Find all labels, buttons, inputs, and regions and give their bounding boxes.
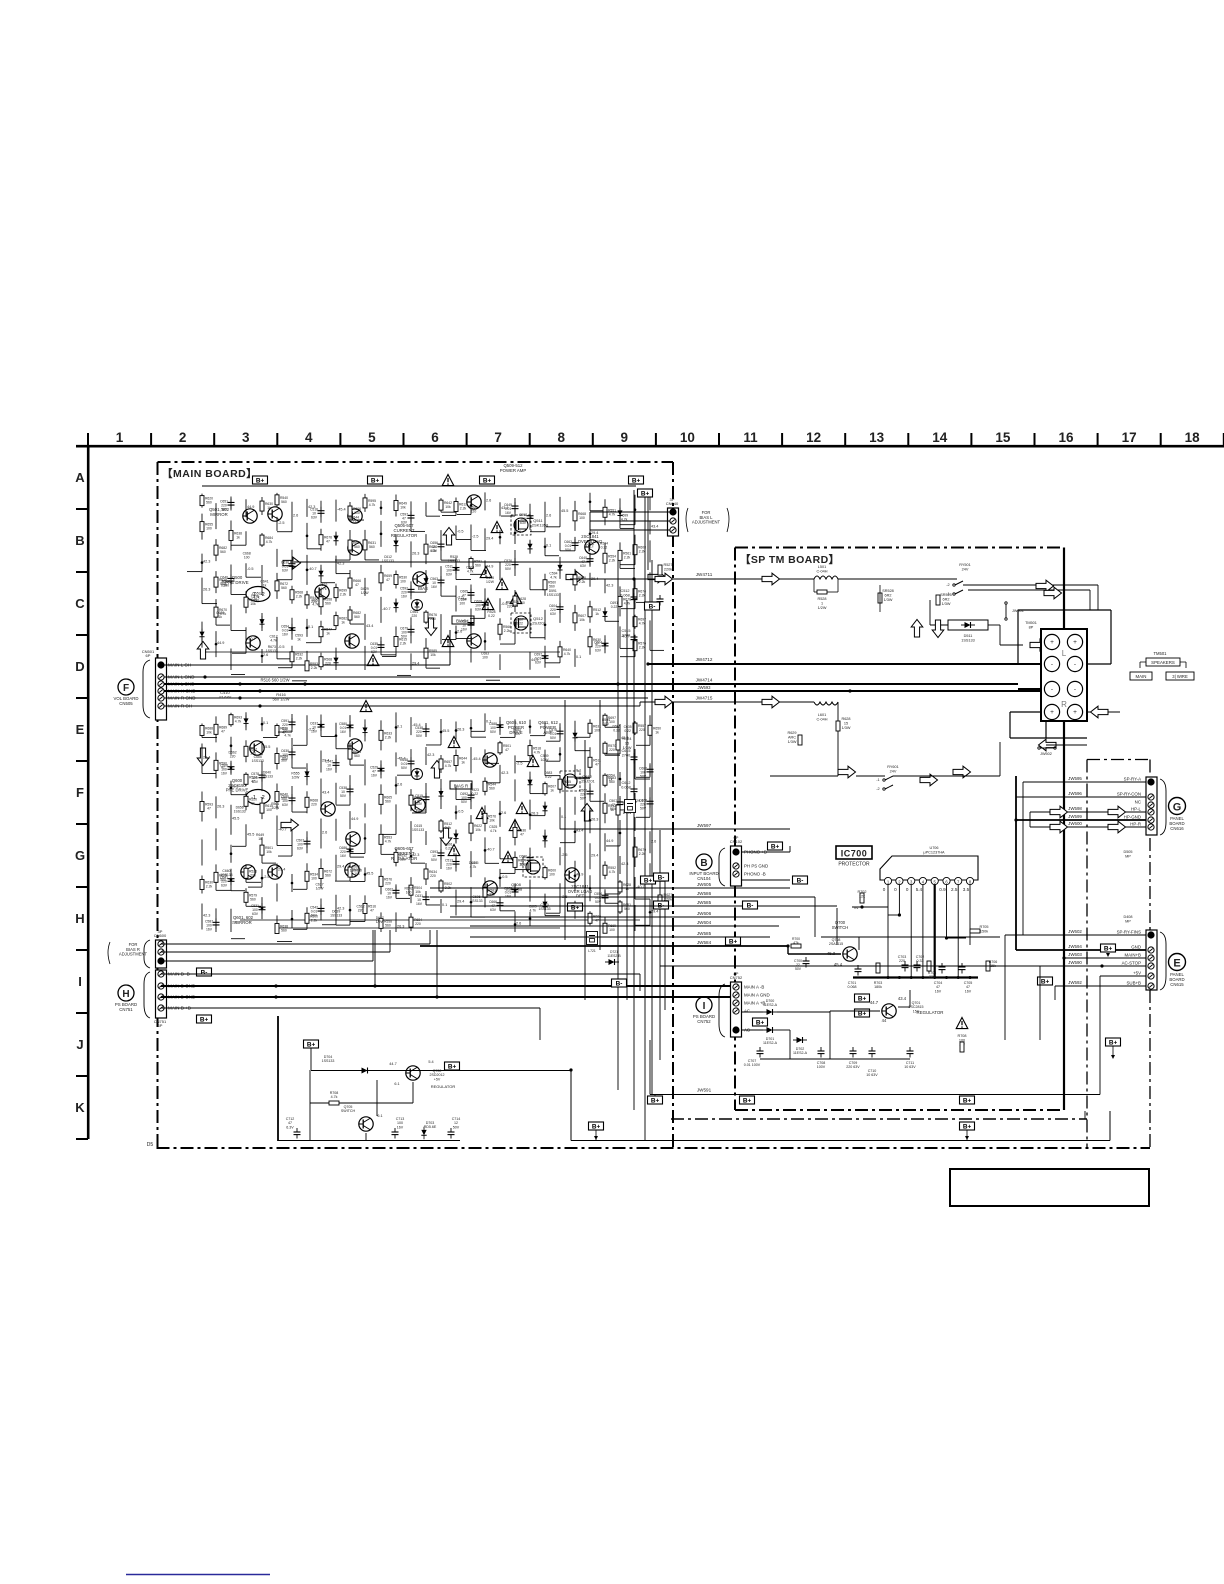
resistor R619 — [305, 913, 309, 923]
resistor R537 — [290, 652, 294, 662]
wire stub — [277, 941, 292, 943]
svg-text:B: B — [700, 858, 707, 869]
wire segment — [634, 615, 636, 629]
svg-text:63V: 63V — [475, 607, 482, 611]
B+ marker upper rail — [253, 476, 268, 485]
wire segment — [484, 528, 486, 550]
svg-text:0: 0 — [883, 887, 886, 892]
capacitor C547 — [347, 721, 354, 732]
wire relay to speaker — [963, 584, 1098, 586]
wire segment — [604, 793, 606, 823]
svg-text:1k: 1k — [297, 637, 301, 641]
wire segment — [514, 719, 516, 737]
connector CN640 body — [668, 508, 679, 536]
wire segment — [395, 776, 397, 794]
wire segment — [559, 747, 561, 761]
svg-text:16V: 16V — [340, 730, 347, 734]
capacitor C708 — [818, 1047, 825, 1058]
svg-text:560 1/2W: 560 1/2W — [272, 697, 289, 702]
warning triangle — [442, 636, 454, 647]
svg-text:26.3: 26.3 — [217, 804, 224, 808]
svg-text:1SS133: 1SS133 — [470, 899, 482, 903]
B+ marker E mid — [1106, 1038, 1121, 1047]
transistor Q603 — [411, 798, 425, 812]
wire segment — [544, 894, 546, 916]
svg-text:220: 220 — [929, 975, 935, 979]
svg-text:C: C — [75, 596, 85, 611]
svg-text:JW591: JW591 — [697, 1088, 712, 1093]
svg-text:0.1: 0.1 — [308, 625, 313, 629]
svg-text:2.6: 2.6 — [516, 921, 521, 925]
wire stub — [545, 915, 560, 917]
svg-text:220: 220 — [899, 959, 905, 963]
wire IC pin drop — [922, 885, 924, 978]
svg-text:47k: 47k — [793, 941, 799, 945]
wire segment — [559, 593, 561, 623]
signal arrow speaker bottom — [1039, 739, 1057, 751]
connector CN600 body — [156, 940, 167, 968]
wire segment — [425, 723, 427, 737]
capacitor C636 — [542, 652, 549, 663]
wire segment — [425, 610, 427, 624]
wire JW590 long — [660, 965, 1040, 967]
wire segment — [215, 716, 217, 742]
wire segment — [499, 897, 501, 911]
svg-text:14: 14 — [932, 430, 948, 445]
transistor Q5A — [315, 585, 329, 599]
wire stub — [605, 893, 620, 895]
grid tick column 18 — [1223, 433, 1224, 446]
svg-text:G: G — [1173, 802, 1182, 814]
connector CN752 pin MAIN A GND — [733, 992, 739, 998]
wire stub — [336, 573, 350, 575]
wire segment — [619, 542, 621, 568]
svg-text:16V: 16V — [461, 628, 468, 632]
resistor R691 — [483, 887, 487, 897]
wire stub — [293, 744, 307, 746]
connector CN102 bracket — [719, 848, 725, 886]
resistor R644 — [618, 902, 622, 912]
svg-text:45.5: 45.5 — [263, 745, 270, 749]
capacitor C632 — [557, 603, 564, 614]
svg-text:63V: 63V — [446, 573, 453, 577]
resistor R565 — [558, 779, 562, 789]
wire segment — [320, 750, 322, 772]
speaker terminal 4 + — [1067, 704, 1082, 719]
wire segment — [349, 743, 351, 765]
capacitor C516 — [318, 507, 325, 517]
wire segment — [514, 819, 516, 845]
resistor R628 — [348, 578, 352, 588]
wire stub — [231, 629, 246, 631]
wire segment — [470, 557, 472, 571]
capacitor C694 — [438, 576, 445, 587]
resistor R563 — [454, 755, 458, 765]
wire segment — [529, 740, 531, 762]
diode D525 — [602, 608, 607, 620]
wire segment — [529, 720, 531, 734]
svg-text:10k: 10k — [206, 730, 212, 734]
resistor R607 — [305, 595, 309, 605]
B+ marker CN752 — [753, 1018, 768, 1027]
wire vertical bundle — [584, 740, 586, 1000]
connector CN616 body — [1146, 777, 1157, 835]
wire stub — [322, 924, 336, 926]
wire stub — [471, 602, 486, 604]
capacitor C613 — [587, 787, 594, 798]
svg-text:1SS133: 1SS133 — [547, 593, 559, 597]
resistor R665 — [588, 757, 592, 767]
svg-text:2.6: 2.6 — [322, 830, 327, 834]
wire JW584 drop to Q700 base — [787, 946, 789, 954]
wire stub — [382, 833, 396, 835]
resistor R579 — [603, 923, 607, 933]
wire +5V rail — [311, 1070, 571, 1072]
wire stub — [545, 662, 560, 664]
resistor R518 — [319, 657, 323, 667]
capacitor C561 — [347, 845, 354, 856]
wire IC pin drop — [957, 885, 959, 978]
wire MAIN B -B — [161, 973, 640, 975]
svg-text:43.4: 43.4 — [898, 996, 907, 1001]
capacitor C614 — [228, 875, 235, 886]
svg-text:10k: 10k — [266, 850, 272, 854]
wire segment — [619, 724, 621, 754]
svg-text:100: 100 — [609, 928, 615, 932]
connector CN752 pin AC — [733, 1027, 739, 1033]
wire segment — [455, 586, 457, 612]
wire segment — [499, 741, 501, 755]
svg-text:1SS133: 1SS133 — [266, 649, 278, 653]
wire stub — [231, 544, 246, 546]
svg-text:560: 560 — [489, 786, 495, 790]
wire segment — [484, 632, 486, 650]
wire stub — [501, 515, 515, 517]
wire segment — [245, 627, 247, 653]
wire stub — [442, 515, 456, 517]
svg-text:45.5: 45.5 — [561, 509, 568, 513]
wire stub — [336, 804, 350, 806]
wire rail drop — [647, 490, 649, 570]
wire row C long — [290, 561, 590, 563]
JW501 link — [1005, 604, 1007, 618]
svg-text:45.5: 45.5 — [232, 817, 239, 821]
svg-text:100: 100 — [206, 527, 212, 531]
wire segment — [470, 719, 472, 737]
wire reg vertical 2 — [829, 1011, 831, 1059]
svg-text:50V: 50V — [550, 736, 557, 740]
wire JW585 — [470, 936, 770, 938]
resistor R571 — [379, 918, 383, 928]
diode D616 — [542, 833, 547, 845]
wire segment — [619, 900, 621, 914]
wire segment — [395, 534, 397, 552]
svg-text:50V: 50V — [401, 766, 408, 770]
resistor R615 — [200, 496, 204, 506]
transistor Q607 — [348, 739, 362, 753]
svg-text:560: 560 — [220, 550, 226, 554]
B+ marker mid column — [638, 489, 653, 498]
capacitor C650 — [512, 885, 519, 896]
wire segment — [604, 607, 606, 621]
wire segment — [634, 877, 636, 899]
connector CN615 bracket — [1160, 932, 1166, 990]
speaker terminal 1 + — [1044, 634, 1059, 649]
svg-text:JW596: JW596 — [1068, 791, 1082, 796]
wire stub — [650, 649, 664, 651]
svg-text:4.7k: 4.7k — [270, 639, 277, 643]
svg-text:560: 560 — [281, 929, 287, 933]
svg-text:8P: 8P — [1029, 625, 1034, 629]
wire segment — [215, 631, 217, 657]
wire reg bottom — [760, 1058, 910, 1060]
svg-text:JW605: JW605 — [697, 882, 712, 887]
svg-text:D408: D408 — [1123, 915, 1132, 919]
wire stub — [232, 652, 246, 654]
wire segment — [215, 571, 217, 593]
grid tick row 2 — [76, 571, 88, 573]
wire segment — [245, 712, 247, 730]
svg-text:10k: 10k — [354, 872, 360, 876]
wire stub — [620, 647, 635, 649]
B+ marker near CN751 — [197, 1015, 212, 1024]
wire stub — [278, 855, 292, 857]
svg-text:0.22: 0.22 — [472, 792, 479, 796]
wire segment — [306, 715, 308, 745]
wire segment — [306, 763, 308, 785]
grid tick column 3 — [276, 433, 278, 446]
capacitor C566 — [438, 540, 445, 551]
signal arrow SP mid a — [838, 766, 856, 778]
svg-text:1k: 1k — [258, 837, 262, 841]
B- marker lower mid — [612, 979, 627, 988]
capacitor C668 — [228, 574, 235, 585]
svg-text:-0.5: -0.5 — [232, 785, 239, 789]
connector CN616 pin NC — [1148, 802, 1154, 808]
B- marker near CN751 — [197, 968, 212, 977]
resistor R627 — [658, 895, 662, 905]
IC U706 pin 2 — [896, 877, 903, 884]
svg-text:R524: R524 — [622, 737, 631, 741]
svg-text:μPC1237HA: μPC1237HA — [923, 850, 945, 854]
wire segment — [455, 853, 457, 871]
svg-text:16V: 16V — [431, 585, 438, 589]
svg-text:2.2k: 2.2k — [400, 641, 407, 645]
svg-text:45.5: 45.5 — [247, 832, 254, 836]
svg-text:REGULATOR: REGULATOR — [391, 533, 417, 538]
wire segment — [649, 520, 651, 534]
svg-text:SR528: SR528 — [882, 589, 894, 593]
wire segment — [574, 537, 576, 551]
wire stub — [382, 655, 396, 657]
wire segment — [245, 740, 247, 762]
wire segment — [514, 622, 516, 644]
connector CN501 pin MAIN R CH — [158, 703, 164, 709]
wire stub — [231, 593, 246, 595]
wire speaker row4 right — [1087, 711, 1120, 713]
svg-text:2.2k: 2.2k — [639, 594, 646, 598]
resistor R589 — [603, 743, 607, 753]
wire segment — [276, 493, 278, 507]
wire MAIN L GND bus — [164, 676, 560, 678]
inductor L501 — [814, 576, 838, 579]
grid tick column 15 — [1034, 433, 1036, 446]
svg-text:3| WIRE: 3| WIRE — [1172, 674, 1188, 679]
wire segment — [291, 714, 293, 732]
svg-text:16V: 16V — [505, 511, 512, 515]
svg-text:4.7k: 4.7k — [284, 734, 291, 738]
wire segment — [470, 783, 472, 809]
svg-text:SP-RY-A: SP-RY-A — [1124, 777, 1141, 782]
wire +5V — [1100, 975, 1146, 977]
svg-text:-2.5: -2.5 — [472, 535, 479, 539]
wire SP right vertical 2 — [836, 908, 838, 945]
wire segment — [364, 895, 366, 921]
svg-text:1k: 1k — [655, 730, 659, 734]
wire HP-GND — [1016, 819, 1146, 821]
wire rail to corner — [570, 1071, 572, 1141]
svg-text:2.2k: 2.2k — [624, 555, 631, 559]
wire stub — [500, 643, 515, 645]
wire stub — [277, 845, 292, 847]
signal arrow JW4711 a — [655, 573, 673, 585]
capacitor C612 — [631, 785, 638, 796]
wire MAIN R CH rise — [639, 702, 641, 706]
signal arrow JW4715 b — [762, 696, 780, 708]
wire segment — [215, 599, 217, 625]
svg-text:63V: 63V — [297, 846, 304, 850]
svg-text:10k: 10k — [430, 653, 436, 657]
wire stub — [456, 579, 471, 581]
wire segment — [499, 869, 501, 887]
wire segment — [425, 747, 427, 765]
wire segment — [499, 502, 501, 516]
wire AC-STOP — [1040, 965, 1146, 967]
wire speaker row3 — [1018, 688, 1041, 690]
transistor Q705 — [359, 1117, 373, 1131]
wire stub — [321, 629, 336, 631]
wire segment — [529, 772, 531, 794]
svg-text:U706: U706 — [929, 846, 938, 850]
wire segment — [514, 779, 516, 801]
capacitor C516 — [527, 854, 534, 865]
svg-text:17: 17 — [1122, 430, 1137, 445]
svg-text:JW593: JW593 — [697, 685, 711, 690]
wire stub — [248, 886, 262, 888]
svg-text:8P: 8P — [734, 971, 739, 976]
resistor R561 — [244, 868, 248, 878]
svg-text:2.6: 2.6 — [501, 811, 506, 815]
connector CN616 pin SP-RY-A — [1148, 779, 1154, 785]
svg-text:G: G — [75, 848, 85, 863]
wire segment — [364, 614, 366, 640]
MAIN box label — [1130, 672, 1152, 680]
wire segment — [395, 804, 397, 834]
resistor R539 — [275, 924, 279, 934]
wire segment — [245, 531, 247, 545]
svg-text:1k: 1k — [236, 535, 240, 539]
wire stub — [500, 858, 515, 860]
svg-text:63V: 63V — [401, 520, 408, 524]
junction HP — [1014, 818, 1017, 821]
svg-text:PROTECTOR: PROTECTOR — [838, 862, 870, 868]
transistor Q507 — [246, 636, 260, 650]
capacitor C714 — [448, 1128, 455, 1139]
wire Q701 collector — [898, 1006, 910, 1008]
wire stub — [457, 514, 471, 516]
B+ marker mid 2 — [641, 876, 656, 885]
wire segment — [349, 775, 351, 805]
wire segment — [276, 864, 278, 878]
svg-text:R705: R705 — [979, 925, 988, 929]
FET Q612 — [560, 771, 580, 791]
wire segment — [215, 539, 217, 561]
transistor Q602 — [268, 865, 282, 879]
connector circle F — [118, 679, 134, 695]
svg-text:1/2W: 1/2W — [361, 591, 370, 595]
transistor Q504 — [348, 541, 362, 555]
B- marker phono — [793, 876, 808, 885]
wire segment — [349, 606, 351, 624]
wire MAIN L GND bus 2 — [164, 683, 1018, 685]
capacitor C595 — [572, 539, 579, 550]
svg-text:16V: 16V — [505, 894, 512, 898]
wire segment — [410, 501, 412, 531]
wire segment — [470, 609, 472, 639]
wire stub — [292, 811, 307, 813]
wire segment — [484, 713, 486, 731]
svg-text:BIAS: BIAS — [416, 808, 426, 813]
resistor R629 — [798, 735, 802, 745]
svg-text:-40.7: -40.7 — [278, 828, 287, 832]
diode D702 — [793, 1037, 807, 1043]
svg-text:42.3: 42.3 — [203, 560, 210, 564]
svg-text:AC-STOP: AC-STOP — [1122, 961, 1142, 966]
wire stub — [456, 539, 471, 541]
connector CN751 pin MAIN B +B — [158, 1005, 164, 1011]
svg-text:50V: 50V — [461, 800, 468, 804]
wire segment — [514, 550, 516, 576]
wire segment — [291, 874, 293, 892]
capacitor C549 — [602, 639, 609, 650]
svg-text:0.22: 0.22 — [624, 729, 631, 733]
wire segment — [499, 618, 501, 640]
wire stub — [442, 639, 456, 641]
main board outline top edge — [158, 461, 674, 463]
wire stub — [216, 889, 231, 891]
svg-text:1/3W: 1/3W — [942, 602, 951, 606]
capacitor C592 — [497, 899, 504, 910]
svg-text:220: 220 — [250, 873, 256, 877]
wire segment — [484, 749, 486, 763]
wire segment — [634, 817, 636, 831]
IC U706 package — [880, 856, 978, 880]
svg-text:11ES2-A: 11ES2-A — [793, 1051, 808, 1055]
wire L501 to relay — [838, 578, 957, 580]
svg-text:Vs: Vs — [854, 906, 859, 910]
svg-text:220: 220 — [430, 874, 436, 878]
wire IC pin drop — [934, 885, 936, 978]
wire long vertical b — [1039, 966, 1041, 1040]
wire segment — [320, 898, 322, 920]
wire SP lower left — [837, 702, 839, 721]
svg-text:50V: 50V — [490, 730, 497, 734]
wire stub — [278, 731, 292, 733]
svg-text:26.3: 26.3 — [591, 817, 598, 821]
SP TM board outline top edge — [735, 547, 1064, 549]
connector CN102 pin PHONO -B — [733, 871, 739, 877]
resistor R679 — [603, 507, 607, 517]
